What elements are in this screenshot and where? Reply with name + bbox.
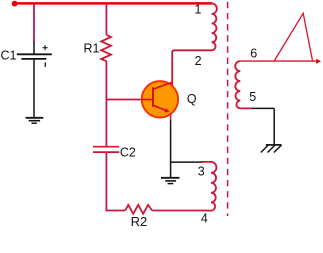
wire bottom right to tap 4 (152, 210, 207, 212)
svg-text:1: 1 (195, 2, 202, 16)
ground C1 earth (26, 118, 44, 123)
svg-text:C2: C2 (120, 146, 136, 160)
wire emitter branch to tap 3 (171, 161, 203, 163)
transistor Q (142, 81, 178, 117)
wire bottom left (106, 210, 126, 212)
wire emitter (black part) (170, 121, 172, 178)
resistor R1 (101, 35, 111, 61)
svg-text:R1: R1 (84, 42, 100, 56)
ground emitter earth (161, 178, 180, 184)
wire R1 top (105, 3, 107, 34)
wire Vcc rail (15, 2, 212, 5)
inductor coil 1-2 with tap wire to collector (172, 3, 217, 86)
svg-text:3: 3 (198, 165, 205, 179)
wire emitter (red part) (170, 113, 172, 121)
wire C1 bottom (33, 59, 35, 117)
svg-text:5: 5 (249, 90, 256, 104)
wire R1 bottom to C2 (105, 61, 107, 146)
svg-text:Q: Q (187, 92, 197, 106)
capacitor C2 (93, 147, 119, 152)
wire to chassis ground (273, 108, 275, 144)
transformer core dashed line (227, 2, 229, 216)
wire C2 bottom (105, 152, 107, 211)
ground chassis (261, 145, 282, 153)
svg-text:4: 4 (201, 211, 208, 225)
arrowhead output (316, 59, 321, 64)
node Vcc terminal dot (12, 1, 18, 7)
inductor secondary coil 5-6 (235, 61, 253, 108)
inductor coil 3-4 (201, 162, 216, 211)
svg-text:R2: R2 (131, 214, 148, 229)
svg-text:6: 6 (250, 46, 257, 60)
wire output 6 (240, 60, 317, 62)
wire tap 5 (black part) (252, 107, 274, 109)
wire base (106, 99, 146, 101)
wire C1 top (black part) (33, 42, 35, 54)
svg-text:C1: C1 (1, 49, 17, 63)
resistor R2 (125, 205, 152, 214)
capacitor C1 (17, 45, 52, 67)
svg-text:2: 2 (195, 54, 202, 68)
wire C1 top (red part) (33, 3, 35, 42)
antenna triangle (274, 13, 313, 61)
